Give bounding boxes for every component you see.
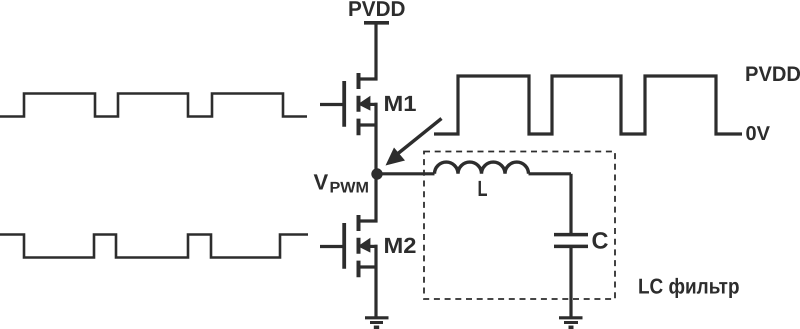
svg-text:PVDD: PVDD [348, 0, 406, 21]
svg-text:LC фильтр: LC фильтр [638, 274, 740, 298]
svg-text:C: C [592, 227, 609, 253]
svg-text:M1: M1 [384, 91, 417, 116]
svg-text:M2: M2 [384, 233, 417, 258]
svg-text:0V: 0V [746, 123, 771, 145]
svg-text:L: L [478, 176, 488, 201]
svg-text:V: V [314, 169, 329, 194]
svg-text:PVDD: PVDD [745, 63, 800, 86]
svg-text:PWM: PWM [330, 180, 370, 197]
